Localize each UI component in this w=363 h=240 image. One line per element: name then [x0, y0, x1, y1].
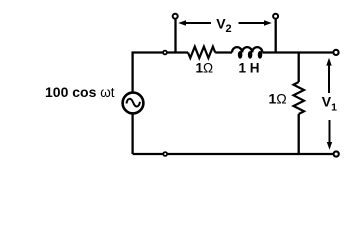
resistor 1ohm shunt (vertical zigzag) — [294, 82, 305, 114]
wire top-left segment — [133, 53, 188, 93]
wire bottom — [133, 153, 333, 155]
terminal bottom-right — [334, 151, 339, 156]
V1 measurement down arrow — [327, 120, 332, 150]
inductor L1 lower loops — [239, 52, 262, 58]
resistor 1ohm series (horizontal zigzag) — [188, 47, 215, 58]
V2 measurement right arrow — [239, 20, 272, 25]
wire V2 right stub — [275, 19, 277, 53]
svg-text:1Ω: 1Ω — [196, 61, 214, 76]
svg-text:100 cos ωt: 100 cos ωt — [45, 84, 115, 100]
terminal V2 left — [173, 14, 178, 19]
svg-text:1 H: 1 H — [239, 61, 260, 76]
inductor L1 1H arches — [232, 47, 262, 52]
V2 measurement left arrow — [178, 20, 211, 25]
V1 measurement up arrow — [326, 58, 331, 93]
node on bottom wire — [163, 152, 167, 156]
wire left branch below source — [131, 114, 133, 154]
wire V2 left stub — [174, 19, 176, 53]
wire inductor to top-right terminal — [262, 51, 333, 53]
terminal V2 right — [273, 14, 278, 19]
wire right branch upper — [298, 53, 300, 83]
terminal top-right — [333, 50, 338, 55]
node on top wire — [163, 51, 167, 55]
svg-text:V1: V1 — [322, 94, 337, 114]
source U1 (100 cos wt sinusoidal source) — [123, 93, 144, 114]
svg-text:V2: V2 — [216, 15, 231, 35]
svg-text:1Ω: 1Ω — [269, 90, 287, 106]
wire between series resistor and inductor — [215, 51, 232, 53]
wire right branch lower — [298, 114, 300, 154]
